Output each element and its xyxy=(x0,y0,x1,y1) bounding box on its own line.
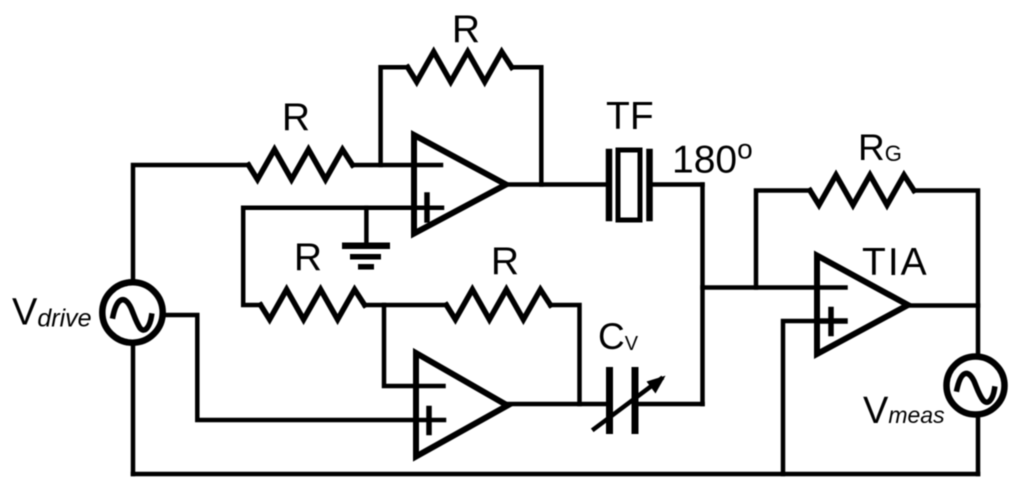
op-amp TIA plus sign xyxy=(817,310,845,334)
wire: V_meas bottom to rail xyxy=(976,418,981,475)
svg-text:Vmeas: Vmeas xyxy=(863,390,945,432)
wire: bottom rail xyxy=(133,472,978,477)
svg-text:Vdrive: Vdrive xyxy=(12,292,92,334)
op-amp TIA xyxy=(817,256,908,355)
op-amp U1 plus sign xyxy=(424,195,430,220)
source V_meas sine wave xyxy=(957,373,995,402)
wire: R1 to op-amp U1 inverting input (junction with feedback at x=380.6) xyxy=(353,163,442,168)
wire: V_drive right branch to U2 non-inverting input xyxy=(166,315,444,420)
crystal TF right electrode xyxy=(646,152,653,218)
wire: R_G right end down to TIA output xyxy=(914,191,978,354)
wire: U1 feedback loop left vertical + top xyxy=(381,67,408,165)
svg-text:R: R xyxy=(491,240,519,283)
crystal TF (tuning fork) left electrode xyxy=(606,152,613,218)
resistor R2 (top feedback resistor) xyxy=(408,52,512,82)
wire: R3 to R4 with junction node at x=384 xyxy=(365,303,447,308)
wire: V_drive top to R input (left vertical + top horizontal) xyxy=(133,165,249,279)
wire: U1 non-inverting input xyxy=(243,205,442,210)
svg-text:R: R xyxy=(294,236,322,279)
resistor R3 (bottom-left resistor) xyxy=(261,290,365,320)
resistor R_G (TIA feedback) xyxy=(810,175,914,205)
wire: vertical from U1 + wire down to R3 xyxy=(243,208,260,305)
wire: crystal to node vertical xyxy=(653,182,703,187)
svg-text:R: R xyxy=(282,96,310,139)
resistor R4 (bottom feedback resistor) xyxy=(446,290,550,320)
wire: capacitor to node vertical xyxy=(639,402,703,407)
source V_drive circle xyxy=(102,282,162,342)
svg-text:CV: CV xyxy=(598,316,639,357)
wire: V_drive bottom to rail xyxy=(131,346,136,474)
capacitor C_V plates xyxy=(610,371,636,431)
wire: R4 right end down to U2 output xyxy=(550,305,579,404)
op-amp U2 plus sign xyxy=(426,409,432,433)
wire: TIA non-inverting input to bottom rail xyxy=(783,321,817,474)
svg-text:RG: RG xyxy=(858,127,902,168)
ground (stub and three bars) xyxy=(345,208,387,267)
resistor R1 (top-left input resistor) xyxy=(249,150,353,180)
wire: junction down to U2 inverting input xyxy=(384,305,444,386)
wire: R_G feedback left vertical xyxy=(756,191,810,288)
wire: R2 right end down to U1 output xyxy=(512,67,542,184)
source V_meas circle xyxy=(947,357,1005,415)
wire: node vertical joining TF and C_V outputs xyxy=(700,185,705,405)
wire: U1 output to crystal TF xyxy=(508,182,605,187)
capacitor C_V variable arrow xyxy=(594,376,666,429)
op-amp U2 (bottom) xyxy=(416,353,508,457)
svg-text:TIA: TIA xyxy=(862,241,929,284)
svg-text:180o: 180o xyxy=(672,134,753,182)
svg-text:R: R xyxy=(452,8,480,51)
crystal TF body rectangle xyxy=(618,150,640,220)
wire: U2 output to capacitor xyxy=(508,402,606,407)
wire: TIA output to right vertical xyxy=(908,303,978,308)
wire: node to TIA inverting input xyxy=(703,285,846,290)
op-amp U1 (top) xyxy=(414,135,506,234)
svg-text:TF: TF xyxy=(606,95,654,138)
source V_drive sine wave xyxy=(113,300,152,330)
